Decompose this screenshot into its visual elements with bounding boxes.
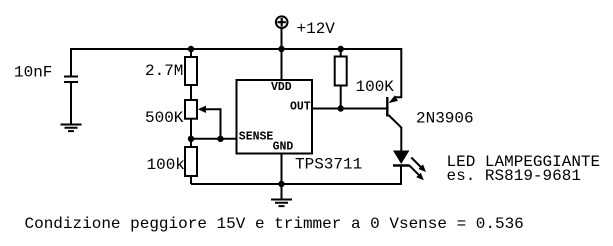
svg-text:TPS3711: TPS3711	[295, 156, 362, 174]
wire SENSE net	[191, 138, 237, 140]
ground (center)	[271, 200, 292, 207]
wire capacitor to ground	[70, 82, 72, 125]
svg-text:2N3906: 2N3906	[416, 110, 474, 128]
svg-text:OUT: OUT	[290, 101, 311, 114]
svg-text:2.7M: 2.7M	[145, 62, 183, 80]
wire R4 to OUT net	[340, 86, 342, 109]
svg-text:+12V: +12V	[297, 20, 336, 38]
junction node C (rail/R4)	[338, 46, 344, 52]
+12V supply symbol	[276, 16, 288, 28]
ground (left)	[61, 125, 82, 132]
resistor R4 100K	[335, 57, 347, 86]
wire trimmer to R3	[190, 119, 192, 147]
LED cathode bar	[393, 164, 409, 166]
wire GND pin	[281, 154, 283, 200]
junction node E (sense/wiper)	[217, 136, 223, 142]
junction node A (rail/R1)	[188, 46, 194, 52]
wire +12V stem	[281, 29, 283, 50]
svg-text:100k: 100k	[147, 156, 185, 174]
junction node B (rail/VDD)	[278, 46, 284, 52]
trimmer wiper arrow head	[198, 106, 206, 113]
LED D1 triangle	[393, 151, 409, 165]
wire rail right drop to emitter	[395, 48, 401, 97]
svg-text:GND: GND	[273, 141, 294, 154]
resistor R1 2.7M	[185, 57, 197, 85]
wire bottom rail	[191, 183, 401, 185]
wire R3 to bottom rail	[190, 176, 192, 184]
svg-text:SENSE: SENSE	[239, 131, 274, 144]
svg-text:es. RS819-9681: es. RS819-9681	[447, 167, 581, 185]
wire rail to R4 top	[340, 49, 342, 57]
resistor R3 100k	[185, 147, 197, 176]
wire top rail	[71, 48, 401, 50]
LED emission arrow 2	[409, 165, 419, 175]
op-amp U1 TPS3711 box	[237, 80, 313, 154]
svg-text:Condizione peggiore 15V e trim: Condizione peggiore 15V e trimmer a 0 Vs…	[25, 215, 524, 233]
wire OUT net	[312, 108, 387, 110]
wire wiper line	[204, 109, 221, 139]
wire rail to R1 top	[190, 49, 192, 57]
wire left drop to capacitor	[70, 48, 72, 77]
wire R1 to trimmer	[190, 85, 192, 100]
wire collector drop to LED	[389, 115, 402, 151]
svg-text:10nF: 10nF	[14, 64, 52, 82]
junction node D (sense/left)	[188, 136, 194, 142]
transistor emitter arrow head	[389, 95, 398, 103]
wire LED to bottom rail	[400, 166, 402, 186]
capacitor C1 10nF	[64, 77, 78, 83]
junction node G (gnd rail)	[278, 181, 284, 187]
junction node F (out/R4)	[338, 105, 344, 111]
wire VDD pin	[281, 49, 283, 80]
trimmer R2 500K	[185, 100, 197, 119]
LED emission arrow 1	[411, 158, 421, 168]
transistor Q1 2N3906 base bar	[386, 97, 388, 117]
svg-text:VDD: VDD	[271, 81, 292, 94]
svg-text:500K: 500K	[145, 109, 184, 127]
svg-text:100K: 100K	[356, 78, 395, 96]
